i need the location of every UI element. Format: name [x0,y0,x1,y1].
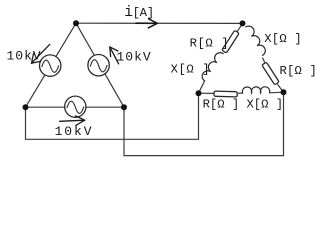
svg-text:i[A]: i[A] [124,5,153,21]
svg-text:X[Ω ]: X[Ω ] [264,32,302,46]
svg-text:R[Ω ] X[Ω ]: R[Ω ] X[Ω ] [203,97,283,111]
svg-text:X[Ω ]: X[Ω ] [171,62,211,76]
wire bottom branch left (E to R3) [199,92,215,94]
node E junction dot [196,90,202,96]
svg-text:R[Ω ]: R[Ω ] [190,36,230,50]
wire bottom branch mid [237,92,242,94]
inductor X2 (right branch of load delta) [246,26,266,55]
wire bottom B to C [26,106,125,108]
node B junction dot [23,104,29,110]
arrow EMF V2 (points up-left) [110,47,119,64]
svg-text:10kV: 10kV [7,49,42,64]
resistor R3 (bottom branch of load delta) [214,91,237,97]
resistor R1 (left branch of load delta) [222,30,239,53]
source V3 (bottom) [65,96,86,117]
node A junction dot [73,20,79,26]
current arrowhead on top wire [136,19,157,28]
wire right branch lower (R2 to F) [278,85,284,93]
wire right branch middle [263,58,265,63]
resistor R2 (right branch of load delta) [262,62,279,85]
node D junction dot [240,20,246,26]
wire net3: C down, right, up to F [124,92,284,155]
wire left slant A to B [26,23,77,107]
wire bottom branch right (X3 to F) [270,91,284,94]
wire top: node A to node D [76,22,243,24]
source V2 (right) [88,54,109,75]
node F junction dot [281,89,287,95]
inductor X1 (left branch of load delta) [202,53,223,81]
svg-text:R[Ω ]: R[Ω ] [280,64,318,78]
svg-text:10kV: 10kV [55,124,94,139]
inductor X3 (bottom branch of load delta) [242,87,269,93]
wire left branch lower (X1 to E) [199,81,205,93]
arrow EMF V3 (points right) [60,116,85,126]
wire left branch upper (D to R1) [237,23,242,31]
wire net2: B down, right, up to E [26,93,199,139]
source V1 (left) [40,55,61,76]
wire right slant A to C [76,23,124,107]
arrow EMF V1 (points down-left) [32,44,50,63]
node C junction dot [121,104,127,110]
svg-text:10kV: 10kV [117,49,152,64]
